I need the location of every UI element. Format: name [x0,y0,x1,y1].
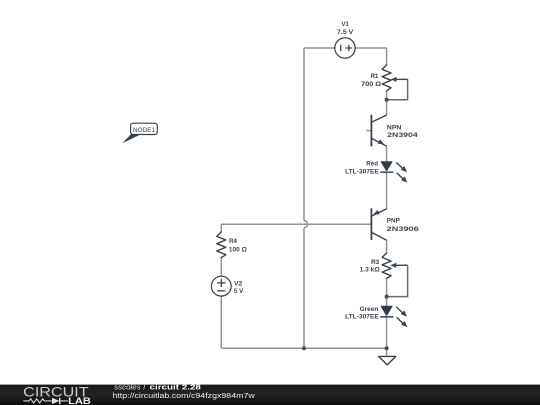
svg-text:LTL-307EE: LTL-307EE [345,314,379,321]
voltage source V2 [211,276,231,296]
wire [386,91,388,115]
svg-text:http://circuitlab.com/c94fzgx9: http://circuitlab.com/c94fzgx984m7w [112,393,256,400]
svg-text:Green: Green [360,306,379,313]
svg-text:sscoles: sscoles [114,385,141,392]
footer title [114,385,201,392]
svg-text:R3: R3 [371,259,379,266]
label V1 [337,21,354,36]
transistor PNP 2N3906 [371,208,386,240]
label R1 [361,73,381,88]
label R3 [360,259,381,273]
wire [387,265,408,296]
transistor NPN 2N3904 [371,115,386,147]
junction [385,98,389,102]
svg-text:7.5 V: 7.5 V [337,29,354,36]
wire [355,47,386,49]
LED D1 Red [380,162,407,183]
label Red LTL-307EE [345,160,379,175]
wire [221,223,371,225]
svg-text:Red: Red [366,160,378,167]
resistor R1 (rheostat) [382,65,408,91]
svg-text:100 Ω: 100 Ω [229,246,248,253]
wire NPN base stub [366,130,371,132]
wire [386,278,388,306]
wire [220,258,222,277]
logo squiggle resistor [23,399,52,403]
label PNP 2N3906 [387,217,419,233]
label NPN 2N3904 [387,125,418,140]
svg-text:2N3904: 2N3904 [387,132,418,139]
wire [303,48,305,221]
svg-text:NPN: NPN [387,125,401,132]
wire [386,48,388,65]
svg-text:PNP: PNP [387,217,400,224]
svg-text:R1: R1 [371,73,379,80]
resistor R4 [217,232,226,258]
svg-text:NODE1: NODE1 [133,127,155,134]
junction [302,346,306,350]
junction [385,346,389,350]
wire [304,47,335,49]
svg-text:2N3906: 2N3906 [387,226,419,233]
LED D2 Green [380,306,407,327]
svg-text:5 V: 5 V [234,288,244,295]
wire [387,79,408,99]
voltage source V1 [335,38,355,58]
resistor R3 (rheostat) [382,253,408,278]
label V2 [234,280,244,295]
wire [386,146,388,162]
svg-text:circuit 2.28: circuit 2.28 [150,385,202,392]
wire [221,347,386,349]
svg-text:/: / [143,385,145,392]
wire [220,296,222,348]
wire [303,228,305,348]
wire [386,240,388,253]
footer bar [0,385,540,405]
label R4 [229,238,248,253]
svg-text:V2: V2 [234,280,242,287]
wire hop [304,221,308,228]
wire [220,224,222,232]
ground [379,356,396,365]
svg-text:LTL-307EE: LTL-307EE [345,168,379,175]
footer url [112,393,256,400]
node NODE1 flag [122,123,157,143]
junction [385,295,389,299]
wire [386,172,388,209]
svg-text:R4: R4 [229,238,237,245]
logo LAB text [68,396,91,405]
wire [386,317,388,357]
svg-text:1.3 kΩ: 1.3 kΩ [360,266,381,273]
svg-text:V1: V1 [342,21,350,28]
logo diode symbol [52,398,68,404]
label Green LTL-307EE [345,306,379,321]
svg-text:LAB: LAB [68,396,91,405]
svg-text:700 Ω: 700 Ω [361,81,381,88]
logo CIRCUIT text [23,385,89,400]
